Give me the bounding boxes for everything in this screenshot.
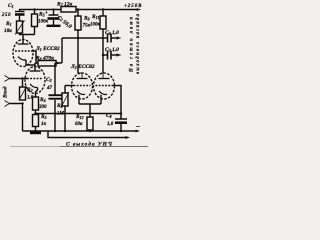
resistor R2 xyxy=(22,79,24,88)
resistor R8 xyxy=(64,86,66,94)
capacitor C6 xyxy=(104,37,107,39)
svg-text:C7 1,0: C7 1,0 xyxy=(105,47,119,53)
svg-text:60к: 60к xyxy=(75,122,83,127)
tube V2b grid xyxy=(96,85,113,87)
svg-text:R4: R4 xyxy=(39,97,46,103)
svg-text:Л1 ЕСС82: Л1 ЕСС82 xyxy=(35,46,60,52)
capacitor C3 xyxy=(54,63,56,95)
wire feedback line xyxy=(36,113,122,115)
wire driver feed horizontal xyxy=(62,37,104,39)
terminal feedback arrow xyxy=(126,136,131,139)
node R2 top xyxy=(21,77,24,80)
svg-text:Вход: Вход xyxy=(2,86,9,99)
svg-text:100к: 100к xyxy=(90,23,101,28)
wire anode lead V1b xyxy=(34,63,36,71)
svg-text:С выхода УНЧ: С выхода УНЧ xyxy=(66,141,113,148)
svg-text:47: 47 xyxy=(46,86,53,91)
input terminal lower xyxy=(5,101,10,107)
tube V2b envelope xyxy=(94,73,115,99)
node rail-R11 xyxy=(102,8,105,11)
ground C2 xyxy=(47,25,61,27)
wire lower input xyxy=(10,104,23,132)
node R6-C3 xyxy=(56,62,59,65)
capacitor C1 xyxy=(19,10,21,12)
svg-text:выходного каскада: выходного каскада xyxy=(136,13,141,74)
tube V1b envelope xyxy=(25,67,45,94)
svg-text:R3: R3 xyxy=(38,12,45,18)
svg-text:На сетки ламп: На сетки ламп xyxy=(130,17,135,73)
svg-text:R12: R12 xyxy=(75,114,84,120)
svg-text:C1: C1 xyxy=(8,3,14,9)
svg-text:390: 390 xyxy=(38,105,47,110)
tube V2a envelope xyxy=(72,73,93,99)
node C7 tap xyxy=(102,54,105,57)
resistor R1 xyxy=(17,21,23,33)
svg-text:Л2 ЕСС82: Л2 ЕСС82 xyxy=(70,64,95,70)
svg-text:18к: 18к xyxy=(4,28,12,34)
resistor R5 xyxy=(33,115,39,127)
tube V2a cathode xyxy=(77,91,85,94)
tube V2a anode xyxy=(77,78,88,80)
svg-text:+: + xyxy=(45,11,48,16)
wire B+ rail left segment xyxy=(19,9,61,11)
tube V2b cathode xyxy=(99,91,107,94)
wire bottom faint rule xyxy=(10,146,148,148)
tube V1a anode xyxy=(18,43,29,45)
tube V1a grid lead xyxy=(31,51,36,63)
svg-text:R8: R8 xyxy=(56,103,63,109)
capacitor C2 xyxy=(53,10,55,15)
resistor R9 xyxy=(77,10,79,17)
svg-text:R7 12к: R7 12к xyxy=(56,2,73,8)
node C3-feedback xyxy=(54,112,57,115)
svg-text:R6 470к: R6 470к xyxy=(35,56,54,62)
wire anode lead V1a xyxy=(22,35,24,45)
tube V1a cathode xyxy=(18,57,26,60)
wire R6 right up to driver feed xyxy=(61,38,63,63)
terminal common rail arrow xyxy=(136,130,141,133)
svg-text:C8: C8 xyxy=(106,113,112,119)
node rail-R9 xyxy=(77,8,80,11)
svg-text:100к: 100к xyxy=(38,20,49,25)
resistor R11 xyxy=(102,10,104,17)
wire R1 bottom to anode wire xyxy=(20,33,35,35)
resistor R3 xyxy=(34,10,36,15)
terminal +250V arrow xyxy=(136,9,141,11)
svg-text:R2: R2 xyxy=(26,87,33,93)
node feed-R9 xyxy=(77,37,80,40)
resistor R4 xyxy=(33,97,39,110)
capacitor C8 xyxy=(120,112,123,115)
wire feedback rail xyxy=(48,131,126,138)
svg-text:R5: R5 xyxy=(40,114,47,120)
node R4-R5 feedback xyxy=(34,112,37,115)
svg-text:1М: 1М xyxy=(57,112,65,117)
node rail-C2 xyxy=(52,8,55,11)
svg-text:C6 1,0: C6 1,0 xyxy=(105,30,119,36)
tube V1a envelope xyxy=(13,40,33,67)
svg-text:R1: R1 xyxy=(5,21,12,27)
tube V1b cathode xyxy=(30,84,38,87)
svg-text:C3: C3 xyxy=(46,77,52,83)
input terminal upper xyxy=(5,76,10,82)
tube V1b grid xyxy=(27,78,43,80)
capacitor C7 xyxy=(103,54,107,56)
ground R5 xyxy=(30,131,41,134)
svg-text:1,0: 1,0 xyxy=(27,96,34,101)
svg-text:1,0: 1,0 xyxy=(107,122,114,127)
wire common rail xyxy=(23,130,137,132)
svg-text:250: 250 xyxy=(1,13,11,18)
tube V2b anode xyxy=(99,78,110,80)
node R2 bottom xyxy=(21,102,24,105)
tube V1a grid xyxy=(15,50,31,52)
node rail-R3 xyxy=(33,8,36,11)
svg-text:1к: 1к xyxy=(41,122,47,127)
tube V2a grid xyxy=(74,85,91,87)
tube V1b grid lead input xyxy=(10,78,28,80)
resistor R7 xyxy=(61,7,76,13)
wire cathode bus xyxy=(79,103,101,105)
wire B+ rail right segment xyxy=(76,9,136,11)
resistor R12 xyxy=(87,117,93,130)
svg-text:R9: R9 xyxy=(83,16,90,22)
tube V1b anode xyxy=(30,70,41,72)
svg-text:+250В: +250В xyxy=(124,4,142,9)
resistor R6 xyxy=(35,62,38,64)
node cathode-feedback xyxy=(89,112,92,115)
svg-text:R11: R11 xyxy=(91,14,99,20)
